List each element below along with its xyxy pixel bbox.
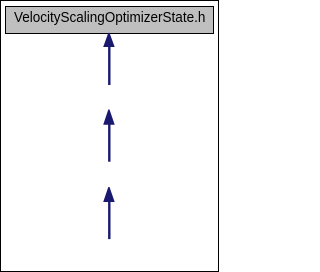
arrow edge 2 (head)	[103, 110, 115, 125]
arrow edge 3 (head)	[103, 187, 115, 202]
arrows	[0, 0, 219, 272]
arrow edge 1 (head)	[103, 33, 115, 47]
label VelocityScalingOptimizerState.h	[14, 10, 205, 26]
border frame	[0, 0, 219, 272]
arrow edge 1 (shaft)	[108, 47, 110, 86]
arrow edge 3 (shaft)	[108, 202, 110, 240]
node box VelocityScalingOptimizerState.h	[5, 6, 214, 34]
arrow edge 2 (shaft)	[108, 124, 110, 162]
